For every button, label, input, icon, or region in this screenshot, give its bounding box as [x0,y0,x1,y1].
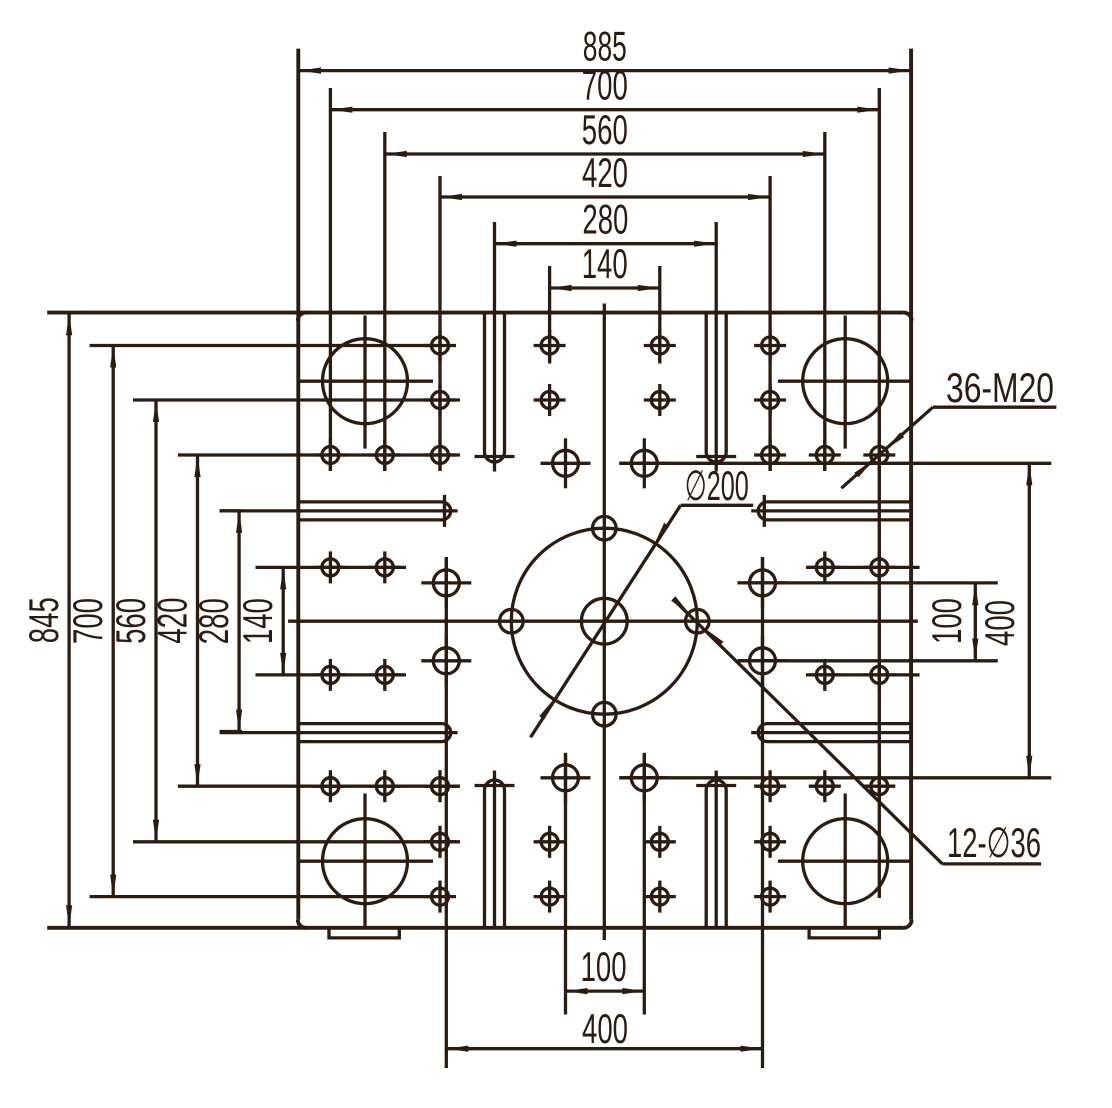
M20 tapped hole #21 (row 70 col 220) [816,666,833,683]
col line x=-275 (700 top ext) [329,88,332,471]
dimension 420 (left) [196,455,199,786]
plate corner arc top-left [298,313,306,321]
svg-text:400: 400 [582,1005,628,1052]
right mounting foot [809,928,879,938]
dimension 700 (top) [330,108,879,111]
ext line 100-right lower [738,659,998,662]
M20 tapped hole #26 (row 165 col 165) [762,778,779,795]
tie-bar top-left vertical centerline [363,316,366,449]
M20 tapped hole #13 (row -165 col 220) [816,447,833,464]
dimension 845 (left) [67,313,70,927]
T-slot horizontal left at y=510.9 [298,502,451,520]
locating hole left (12-phi36 set) [500,609,524,633]
dimension 885 (top) [299,69,911,72]
M20 tapped hole #23 (row 165 col -275) [322,778,339,795]
T-slot vertical bottom at x=716.2 [706,780,726,928]
M20 tapped hole #33 (row 275 col -165) [432,888,449,905]
horizontal centerline [288,620,918,623]
T-slot horizontal right at y=732.6 [758,724,911,742]
tie-bar hole circle top-right [803,339,888,424]
col line x=-70 (140 top ext) [548,266,551,364]
M20 tapped hole #24 (row 165 col -220) [376,778,393,795]
phi36 through hole top left [553,450,579,476]
locating hole bottom (12-phi36 set) [593,702,617,726]
ext line 400-right top (through phi36 pair) [619,462,1051,465]
phi36 through hole bottom left [553,765,579,791]
M20 tapped hole #3 (row -275 col 70) [651,337,668,354]
dimension 140 (left) [282,567,285,675]
svg-text:560: 560 [582,106,628,153]
svg-text:845: 845 [20,597,67,643]
M20 tapped hole #29 (row 220 col -165) [432,833,449,850]
dimension 140 (top) [550,286,660,289]
M20 tapped hole #8 (row -220 col 165) [762,392,779,409]
svg-text:36-M20: 36-M20 [946,364,1054,411]
M20 tapped hole #5 (row -220 col -165) [432,392,449,409]
phi36 through hole right upper [750,570,776,596]
tie-bar bottom-right horizontal centerline [778,860,913,863]
M20 tapped hole #20 (row 70 col -220) [376,666,393,683]
M20 tapped hole #17 (row -70 col 220) [816,559,833,576]
dimension 400 (right) [1028,463,1031,778]
plate bottom edge (extended left as 845 ext line) [47,926,903,930]
central locating hole [581,598,627,644]
tie-bar top-left horizontal centerline [299,380,434,383]
dimension 560 (left) [154,400,157,842]
dimension 700 (left) [112,346,115,897]
M20 tapped hole #9 (row -165 col -275) [322,447,339,464]
plate left edge (extended up as 885 ext line) [296,49,300,920]
dimension 400 (bottom) [446,1047,762,1050]
svg-text:140: 140 [234,598,281,644]
row line y=-165 (420 left ext) [178,453,460,456]
svg-text:700: 700 [582,62,628,109]
tie-bar hole circle bottom-right [803,819,888,904]
tie-bar bottom-left vertical centerline [363,794,366,927]
M20 tapped hole #18 (row -70 col 275) [871,559,888,576]
plate right edge (extended up as 885 ext line) [909,49,913,920]
plate corner arc top-right [904,313,912,321]
M20 tapped hole #6 (row -220 col -70) [541,392,558,409]
M20 tapped hole #31 (row 220 col 70) [651,833,668,850]
M20 tapped hole #16 (row -70 col -220) [376,559,393,576]
label 12-phi36 with leader [673,599,942,864]
phi36 through hole left lower [433,648,459,674]
col line x=+165 (420 top ext) [768,176,771,471]
M20 tapped hole #35 (row 275 col 70) [651,888,668,905]
locating hole top (12-phi36 set) [593,516,617,540]
M20 tapped hole #15 (row -70 col -275) [322,559,339,576]
M20 tapped hole #27 (row 165 col 220) [816,778,833,795]
ext line 280-left upper stub [220,509,242,512]
dimension 560 (top) [385,152,825,155]
ext line 280-left lower stub [220,730,242,733]
col line x=+70 (140 top ext) [658,266,661,364]
col line x=-165 (420 top ext) [438,176,441,471]
T-slot vertical bottom at x=494.5 [485,780,505,928]
row line right y=+70 [806,673,920,676]
svg-text:280: 280 [190,598,237,644]
dimension 100 (bottom) [566,989,645,992]
svg-text:700: 700 [64,598,111,644]
tie-bar hole circle bottom-left [323,819,408,904]
svg-text:100: 100 [581,943,627,990]
phi36 through hole bottom right [631,765,657,791]
M20 tapped hole #34 (row 275 col -70) [541,888,558,905]
ext line 400-right bottom (through phi36 pair) [619,776,1051,779]
T-slot horizontal right at y=510.9 [758,502,911,520]
M20 tapped hole #22 (row 70 col 275) [871,666,888,683]
dimension 100 (right) [974,583,977,660]
col line x=+220 (560 top ext) [823,132,826,471]
row line y=-220 (560 left ext) [133,398,460,401]
row line y=+220 (560 left ext) [133,840,460,843]
ext line 100-right upper [738,581,998,584]
svg-text:420: 420 [582,149,628,196]
col line x=-220 (560 top ext) [383,132,386,471]
locating hole right (12-phi36 set) [686,609,710,633]
row line y=+70 (140 left ext) [256,673,407,676]
T-slot horizontal left at y=732.6 [298,724,451,742]
M20 tapped hole #7 (row -220 col 70) [651,392,668,409]
M20 tapped hole #1 (row -275 col -165) [432,337,449,354]
M20 tapped hole #10 (row -165 col -220) [376,447,393,464]
row line y=+165 (420 left ext) [178,785,460,788]
row line y=+275 (700 left ext) [90,895,436,898]
T-slot vertical top at x=494.5 [485,313,505,462]
label 36-M20 with leader [933,406,1057,409]
tie-bar hole circle top-left [323,339,408,424]
tie-bar top-right horizontal centerline [778,380,913,383]
vertical centerline [603,304,606,941]
phi36 through hole right lower [750,648,776,674]
M20 tapped hole #25 (row 165 col -165) [432,778,449,795]
ext line 100-bottom right [643,753,646,1015]
svg-text:100: 100 [923,598,970,644]
phi36 through hole top right [631,450,657,476]
tie-bar bottom-left horizontal centerline [299,860,434,863]
M20 tapped hole #11 (row -165 col -165) [432,447,449,464]
svg-text:560: 560 [107,598,154,644]
M20 tapped hole #14 (row -165 col 275) [871,447,888,464]
ext line 400-bottom left (through phi36) [445,557,448,1068]
left mounting foot [329,928,399,938]
plate corner arc bottom-left [298,920,306,928]
svg-text:∅200: ∅200 [685,462,749,509]
dimension 420 (top) [440,195,770,198]
M20 tapped hole #28 (row 165 col 275) [871,778,888,795]
M20 tapped hole #2 (row -275 col -70) [541,337,558,354]
svg-text:140: 140 [582,240,628,287]
phi36 through hole left upper [433,570,459,596]
plate top edge (extended left as 845 ext line) [47,311,903,315]
ext line 100-bottom left [564,753,567,1015]
tie-bar top-right vertical centerline [844,316,847,449]
ext line 400-bottom right (through phi36) [761,557,764,1068]
row line y=-275 (700 left ext) [90,344,436,347]
dimension 280 (top) [495,242,717,245]
M20 tapped hole #12 (row -165 col 165) [762,447,779,464]
central circle (bolt circle of locating holes) [511,528,697,714]
svg-text:420: 420 [149,598,196,644]
M20 tapped hole #19 (row 70 col -275) [322,666,339,683]
M20 tapped hole #32 (row 220 col 165) [762,833,779,850]
label phi200 with diameter leader [531,505,681,737]
M20 tapped hole #4 (row -275 col 165) [762,337,779,354]
dimension 280 (left) [237,511,240,732]
T-slot vertical top at x=716.2 [706,313,726,462]
svg-text:400: 400 [976,600,1023,646]
row line y=-70 (140 left ext) [256,566,407,569]
col line x=+275 (700 top ext, long) [878,88,881,898]
svg-text:12-∅36: 12-∅36 [947,819,1041,866]
plate corner arc bottom-right [904,920,912,928]
M20 tapped hole #36 (row 275 col 165) [762,888,779,905]
M20 tapped hole #30 (row 220 col -70) [541,833,558,850]
tie-bar bottom-right vertical centerline [844,794,847,927]
row line right y=-70 [806,566,920,569]
svg-text:280: 280 [582,196,628,243]
